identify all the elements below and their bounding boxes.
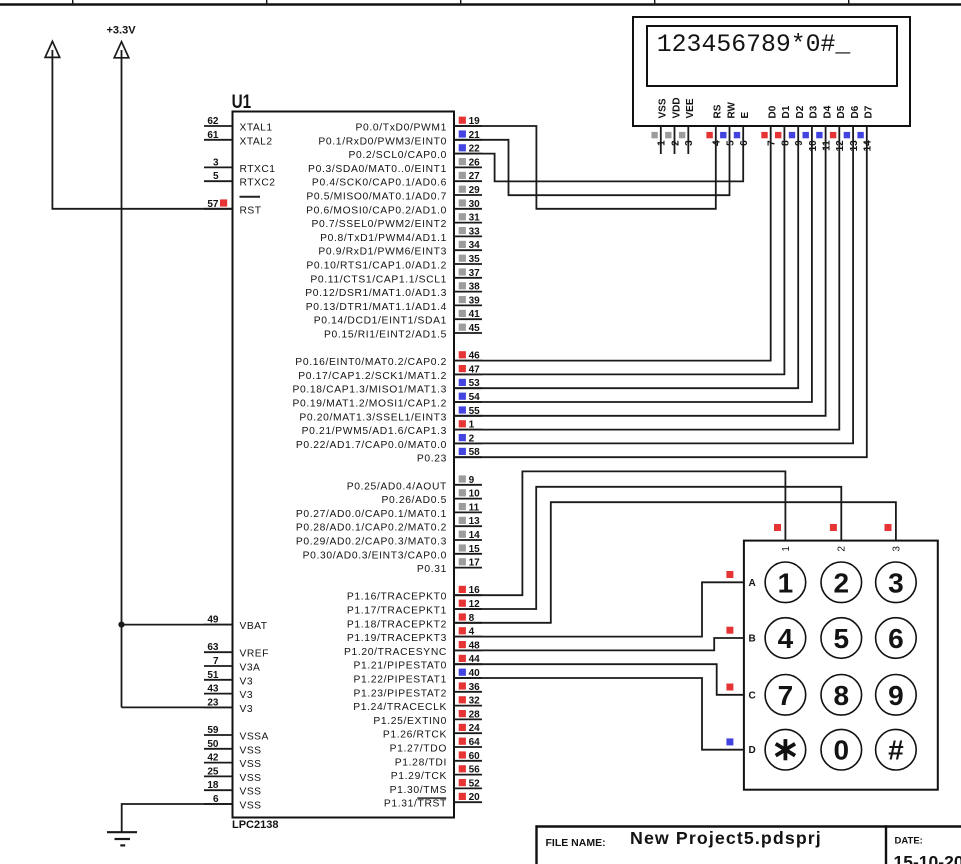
svg-text:P0.1/RxD0/PWM3/EINT0: P0.1/RxD0/PWM3/EINT0 <box>318 136 447 147</box>
svg-text:P1.29/TCK: P1.29/TCK <box>391 771 447 782</box>
wire U1 to LCD D0 <box>454 126 771 361</box>
U1 pin 50 (VSS) <box>204 739 262 757</box>
svg-text:2: 2 <box>837 546 848 552</box>
keypad row pin square at y=694.8 <box>726 684 733 691</box>
U1 pin 56 (P1.29/TCK) <box>391 765 482 783</box>
svg-text:V3A: V3A <box>240 663 261 674</box>
svg-text:P0.5/MISO0/MAT0.1/AD0.7: P0.5/MISO0/MAT0.1/AD0.7 <box>306 192 447 203</box>
svg-text:13: 13 <box>469 516 481 527</box>
svg-text:P0.12/DSR1/MAT1.0/AD1.3: P0.12/DSR1/MAT1.0/AD1.3 <box>305 288 447 299</box>
svg-text:P1.23/PIPESTAT2: P1.23/PIPESTAT2 <box>354 688 448 699</box>
LCD pin 9 (D2) <box>789 105 806 146</box>
svg-text:3: 3 <box>888 567 904 598</box>
svg-text:RTXC1: RTXC1 <box>240 164 276 175</box>
svg-text:P0.11/CTS1/CAP1.1/SCL1: P0.11/CTS1/CAP1.1/SCL1 <box>310 274 447 285</box>
svg-text:41: 41 <box>469 309 481 320</box>
svg-text:VSS: VSS <box>240 745 262 756</box>
svg-text:P1.27/TDO: P1.27/TDO <box>390 744 447 755</box>
svg-text:33: 33 <box>469 226 481 237</box>
U1 pin 15 (P0.30/AD0.3/EINT3/CAP0.0) <box>303 544 482 562</box>
wire P1.22 pin40 to keypad row D <box>454 678 744 750</box>
U1 pin 36 (P1.23/PIPESTAT2) <box>354 682 483 700</box>
U1 pin 19 (P0.0/TxD0/PWM1) <box>356 116 483 134</box>
svg-text:P1.31/TRST: P1.31/TRST <box>384 799 447 810</box>
svg-text:34: 34 <box>469 240 481 251</box>
svg-text:4: 4 <box>712 140 723 146</box>
svg-text:52: 52 <box>469 778 481 789</box>
LCD pin 14 (D7) <box>857 105 874 151</box>
svg-text:P0.17/CAP1.2/SCK1/MAT1.2: P0.17/CAP1.2/SCK1/MAT1.2 <box>298 371 447 382</box>
svg-text:P1.19/TRACEPKT3: P1.19/TRACEPKT3 <box>347 633 447 644</box>
svg-text:60: 60 <box>469 751 481 762</box>
svg-text:#: # <box>888 735 904 766</box>
U1 pin 39 (P0.13/DTR1/MAT1.1/AD1.4) <box>306 295 482 313</box>
svg-text:8: 8 <box>780 140 791 146</box>
U1 pin 34 (P0.9/RxD1/PWM6/EINT3) <box>318 240 482 258</box>
svg-text:57: 57 <box>207 199 219 210</box>
LCD pin 1 (VSS) <box>651 98 668 154</box>
LCD pin 2 (VDD) <box>665 97 682 154</box>
U1 pin 60 (P1.28/TDI) <box>395 751 482 769</box>
svg-text:25: 25 <box>207 766 219 777</box>
svg-text:VDD: VDD <box>671 97 682 118</box>
svg-text:4: 4 <box>778 623 794 654</box>
svg-text:P1.28/TDI: P1.28/TDI <box>395 757 447 768</box>
svg-text:P0.9/RxD1/PWM6/EINT3: P0.9/RxD1/PWM6/EINT3 <box>318 247 447 258</box>
wire U1 to LCD D7 <box>454 126 867 457</box>
keypad column pin square at x=841.3 <box>830 524 837 531</box>
svg-text:VSSA: VSSA <box>240 732 269 743</box>
wire P1.20 pin48 to keypad row B <box>454 638 744 650</box>
svg-text:6: 6 <box>888 623 904 654</box>
svg-text:RS: RS <box>713 104 724 118</box>
U1 pin 10 (P0.26/AD0.5) <box>381 489 482 507</box>
svg-text:P0.8/TxD1/PWM4/AD1.1: P0.8/TxD1/PWM4/AD1.1 <box>320 233 447 244</box>
svg-text:6: 6 <box>213 794 219 805</box>
svg-text:20: 20 <box>469 792 481 803</box>
svg-text:P0.29/AD0.2/CAP0.3/MAT0.3: P0.29/AD0.2/CAP0.3/MAT0.3 <box>296 537 447 548</box>
svg-text:VEE: VEE <box>685 98 696 118</box>
svg-text:51: 51 <box>207 670 219 681</box>
svg-text:P1.26/RTCK: P1.26/RTCK <box>383 730 447 741</box>
svg-text:P1.20/TRACESYNC: P1.20/TRACESYNC <box>344 647 447 658</box>
svg-text:63: 63 <box>207 642 219 653</box>
U1 pin 7 (V3A) <box>204 656 260 674</box>
keypad key 7 <box>765 675 806 716</box>
svg-text:P1.25/EXTIN0: P1.25/EXTIN0 <box>373 716 447 727</box>
svg-text:36: 36 <box>469 682 481 693</box>
U1 pin 29 (P0.5/MISO0/MAT0.1/AD0.7) <box>306 185 482 203</box>
svg-text:P0.30/AD0.3/EINT3/CAP0.0: P0.30/AD0.3/EINT3/CAP0.0 <box>303 550 447 561</box>
U1 pin 21 (P0.1/RxD0/PWM3/EINT0) <box>318 130 482 148</box>
svg-text:59: 59 <box>207 725 219 736</box>
svg-text:P0.2/SCL0/CAP0.0: P0.2/SCL0/CAP0.0 <box>348 150 447 161</box>
keypad row pin square at y=749.7 <box>726 738 733 745</box>
ground symbol <box>107 832 137 845</box>
LCD pin 8 (D1) <box>775 105 792 146</box>
U1 pin 57 (RST) <box>204 197 262 217</box>
keypad key 5 <box>821 618 862 659</box>
LCD module body <box>633 17 910 126</box>
svg-text:9: 9 <box>794 140 805 146</box>
keypad key 3 <box>876 562 917 603</box>
svg-text:3: 3 <box>213 157 219 168</box>
U1 pin 42 (VSS) <box>204 753 262 771</box>
svg-text:9: 9 <box>888 680 904 711</box>
U1 pin 38 (P0.12/DSR1/MAT1.0/AD1.3) <box>305 282 482 300</box>
svg-text:VSS: VSS <box>240 759 262 770</box>
svg-text:U1: U1 <box>232 92 252 113</box>
svg-text:3: 3 <box>684 140 695 146</box>
svg-text:11: 11 <box>469 502 480 513</box>
svg-text:V3: V3 <box>240 676 254 687</box>
U1 pin 27 (P0.4/SCK0/CAP0.1/AD0.6) <box>312 171 482 189</box>
svg-text:D4: D4 <box>822 105 833 118</box>
svg-text:D2: D2 <box>795 105 806 118</box>
svg-text:30: 30 <box>469 199 481 210</box>
U1 pin 9 (P0.25/AD0.4/AOUT) <box>347 475 482 493</box>
svg-text:8: 8 <box>834 680 850 711</box>
svg-text:32: 32 <box>469 696 481 707</box>
U1 pin 1 (P0.21/PWM5/AD1.6/CAP1.3) <box>302 420 482 438</box>
U1 pin 53 (P0.18/CAP1.3/MISO1/MAT1.3) <box>292 378 482 396</box>
svg-text:2: 2 <box>670 140 681 146</box>
svg-text:RST: RST <box>240 205 262 216</box>
svg-text:P0.22/AD1.7/CAP0.0/MAT0.0: P0.22/AD1.7/CAP0.0/MAT0.0 <box>296 440 447 451</box>
U1 pin 11 (P0.27/AD0.0/CAP0.1/MAT0.1) <box>296 502 482 520</box>
U1 pin 26 (P0.3/SDA0/MAT0..0/EINT1) <box>308 157 482 175</box>
wire +3.3V to VBAT pin 49 <box>122 624 233 626</box>
junction dot on +3.3V rail at VBAT <box>118 622 124 628</box>
wire P1.19 pin4 to keypad row A <box>454 582 744 636</box>
U1 pin 52 (P1.30/TMS) <box>390 778 482 796</box>
wire VSS pin 6 to ground <box>122 804 233 832</box>
keypad column pin square at x=785.4 <box>774 524 781 531</box>
sheet border tick marks <box>73 0 849 3</box>
keypad key 6 <box>876 618 917 659</box>
U1 pin 40 (P1.22/PIPESTAT1) <box>354 668 483 686</box>
svg-text:P0.18/CAP1.3/MISO1/MAT1.3: P0.18/CAP1.3/MISO1/MAT1.3 <box>292 385 447 396</box>
wire +3.3V to V3 pin 23 <box>122 706 233 708</box>
svg-text:VSS: VSS <box>240 801 262 812</box>
keypad body <box>744 541 938 790</box>
svg-text:6: 6 <box>739 140 750 146</box>
LCD pin 10 (D3) <box>803 105 820 151</box>
svg-text:3: 3 <box>891 546 902 552</box>
U1 pin 58 (P0.23) <box>417 447 482 465</box>
title block frame <box>536 825 961 864</box>
wire U1 to LCD D4 <box>454 126 826 416</box>
keypad key 9 <box>876 675 917 716</box>
svg-text:0: 0 <box>834 735 850 766</box>
keypad key 8 <box>821 675 862 716</box>
wire U1 to LCD D3 <box>454 126 812 402</box>
svg-text:39: 39 <box>469 295 481 306</box>
keypad key 1 <box>765 562 806 603</box>
U1 pin 17 (P0.31) <box>417 558 482 576</box>
svg-text:LPC2138: LPC2138 <box>232 819 278 831</box>
wire P1.21 pin44 to keypad row C <box>454 664 744 695</box>
svg-text:P0.4/SCK0/CAP0.1/AD0.6: P0.4/SCK0/CAP0.1/AD0.6 <box>312 178 447 189</box>
sheet border line <box>0 3 961 5</box>
wire U1 to LCD D5 <box>454 126 839 430</box>
svg-text:26: 26 <box>469 157 481 168</box>
svg-text:10: 10 <box>808 140 819 152</box>
svg-text:1: 1 <box>781 546 792 552</box>
svg-text:P0.25/AD0.4/AOUT: P0.25/AD0.4/AOUT <box>347 481 447 492</box>
svg-text:7: 7 <box>767 140 778 146</box>
U1 pin 55 (P0.20/MAT1.3/SSEL1/EINT3) <box>299 406 482 424</box>
U1 pin 22 (P0.2/SCL0/CAP0.0) <box>348 144 482 162</box>
svg-text:E: E <box>740 112 751 119</box>
svg-text:VSS: VSS <box>658 98 669 118</box>
U1 pin 14 (P0.29/AD0.2/CAP0.3/MAT0.3) <box>296 530 482 548</box>
svg-text:RW: RW <box>726 101 737 118</box>
wire P1.16 pin16 to keypad column 1 <box>454 471 785 595</box>
keypad key * <box>765 729 806 770</box>
wire U1 to LCD D2 <box>454 126 798 388</box>
U1 pin 44 (P1.21/PIPESTAT0) <box>354 654 483 672</box>
svg-text:35: 35 <box>469 254 481 265</box>
wire P1.17 pin12 to keypad column 2 <box>454 487 841 609</box>
wire RST rail (arrow to U1 RST pin 57) <box>52 50 232 209</box>
svg-text:D1: D1 <box>781 105 792 118</box>
svg-text:1: 1 <box>657 140 668 146</box>
U1 pin 32 (P1.24/TRACECLK) <box>353 696 482 714</box>
wire P0.0 pin19 to LCD RS <box>454 126 716 209</box>
svg-text:P0.31: P0.31 <box>417 564 447 575</box>
svg-text:P0.16/EINT0/MAT0.2/CAP0.2: P0.16/EINT0/MAT0.2/CAP0.2 <box>295 357 447 368</box>
svg-text:D6: D6 <box>850 105 861 118</box>
svg-text:5: 5 <box>725 140 736 146</box>
svg-text:VREF: VREF <box>240 649 269 660</box>
svg-text:RTXC2: RTXC2 <box>240 178 276 189</box>
wire +3.3V rail vertical <box>121 50 123 707</box>
U1 pin 30 (P0.6/MOSI0/CAP0.2/AD1.0) <box>306 199 482 217</box>
U1 pin 33 (P0.8/TxD1/PWM4/AD1.1) <box>320 226 482 244</box>
svg-text:D3: D3 <box>809 105 820 118</box>
svg-text:P0.20/MAT1.3/SSEL1/EINT3: P0.20/MAT1.3/SSEL1/EINT3 <box>299 412 447 423</box>
U1 pin 43 (V3) <box>204 684 253 702</box>
svg-text:11: 11 <box>822 140 833 151</box>
svg-text:P1.17/TRACEPKT1: P1.17/TRACEPKT1 <box>347 606 447 617</box>
wire U1 to LCD D6 <box>454 126 853 443</box>
svg-text:15: 15 <box>469 544 481 555</box>
svg-text:P0.19/MAT1.2/MOSI1/CAP1.2: P0.19/MAT1.2/MOSI1/CAP1.2 <box>292 399 447 410</box>
U1 pin 48 (P1.20/TRACESYNC) <box>344 640 482 658</box>
svg-text:New Project5.pdsprj: New Project5.pdsprj <box>630 828 822 848</box>
wire P0.2 pin22 to LCD E <box>454 126 743 181</box>
svg-text:45: 45 <box>469 323 481 334</box>
U1 pin 23 (V3) <box>204 697 253 715</box>
U1 pin 47 (P0.17/CAP1.2/SCK1/MAT1.2) <box>298 364 482 382</box>
svg-text:43: 43 <box>207 684 219 695</box>
svg-text:P0.14/DCD1/EINT1/SDA1: P0.14/DCD1/EINT1/SDA1 <box>314 316 447 327</box>
svg-text:5: 5 <box>834 623 850 654</box>
svg-text:15-10-20: 15-10-20 <box>894 852 961 864</box>
svg-text:64: 64 <box>469 737 481 748</box>
svg-text:7: 7 <box>778 680 794 711</box>
U1 pin 8 (P1.18/TRACEPKT2) <box>347 613 482 631</box>
svg-text:VSS: VSS <box>240 773 262 784</box>
svg-text:D: D <box>749 745 756 756</box>
svg-text:B: B <box>749 634 756 645</box>
svg-text:VSS: VSS <box>240 787 262 798</box>
U1 pin 6 (VSS) <box>204 794 262 812</box>
svg-text:VBAT: VBAT <box>240 621 268 632</box>
svg-text:14: 14 <box>863 140 874 152</box>
U1 pin 5 (RTXC2) <box>204 171 275 189</box>
U1 pin 24 (P1.26/RTCK) <box>383 723 482 741</box>
svg-text:P0.23: P0.23 <box>417 454 447 465</box>
LCD pin 6 (E) <box>734 112 751 146</box>
keypad column pin square at x=895.9 <box>885 524 892 531</box>
LCD pin 4 (RS) <box>706 104 723 146</box>
svg-text:P0.26/AD0.5: P0.26/AD0.5 <box>381 495 447 506</box>
svg-text:P0.13/DTR1/MAT1.1/AD1.4: P0.13/DTR1/MAT1.1/AD1.4 <box>306 302 447 313</box>
U1 pin 54 (P0.19/MAT1.2/MOSI1/CAP1.2) <box>292 392 482 410</box>
U1 pin 59 (VSSA) <box>204 725 269 743</box>
svg-text:2: 2 <box>834 567 850 598</box>
svg-text:V3: V3 <box>240 704 254 715</box>
svg-text:P1.16/TRACEPKT0: P1.16/TRACEPKT0 <box>347 592 447 603</box>
U1 pin 64 (P1.27/TDO) <box>390 737 482 755</box>
svg-text:24: 24 <box>469 723 481 734</box>
svg-text:P0.7/SSEL0/PWM2/EINT2: P0.7/SSEL0/PWM2/EINT2 <box>311 219 447 230</box>
U1 pin 63 (VREF) <box>204 642 269 660</box>
svg-text:28: 28 <box>469 709 481 720</box>
keypad row pin square at y=638.0 <box>726 627 733 634</box>
svg-text:17: 17 <box>469 558 481 569</box>
U1 pin 41 (P0.14/DCD1/EINT1/SDA1) <box>314 309 482 327</box>
svg-text:P0.28/AD0.1/CAP0.2/MAT0.2: P0.28/AD0.1/CAP0.2/MAT0.2 <box>296 523 447 534</box>
U1 pin 51 (V3) <box>204 670 253 688</box>
svg-text:C: C <box>749 690 756 701</box>
svg-text:18: 18 <box>207 780 219 791</box>
power symbol +3.3V arrow <box>114 42 129 58</box>
svg-text:38: 38 <box>469 282 481 293</box>
U1 pin 2 (P0.22/AD1.7/CAP0.0/MAT0.0) <box>296 433 482 451</box>
IC U1 LPC2138 body <box>233 112 455 818</box>
svg-text:12: 12 <box>835 140 846 152</box>
keypad key 2 <box>821 562 862 603</box>
LCD pin 5 (RW) <box>720 101 737 145</box>
svg-text:P1.18/TRACEPKT2: P1.18/TRACEPKT2 <box>347 619 447 630</box>
keypad row pin square at y=582.3 <box>726 571 733 578</box>
U1 pin 25 (VSS) <box>204 766 262 784</box>
svg-text:P0.0/TxD0/PWM1: P0.0/TxD0/PWM1 <box>356 123 448 134</box>
U1 pin 12 (P1.17/TRACEPKT1) <box>347 599 482 617</box>
svg-text:D7: D7 <box>864 105 875 118</box>
svg-text:37: 37 <box>469 268 481 279</box>
svg-text:62: 62 <box>207 116 219 127</box>
U1 pin 28 (P1.25/EXTIN0) <box>373 709 482 727</box>
svg-text:29: 29 <box>469 185 481 196</box>
svg-text:56: 56 <box>469 765 481 776</box>
U1 pin 46 (P0.16/EINT0/MAT0.2/CAP0.2) <box>295 351 482 369</box>
LCD pin 13 (D6) <box>844 105 861 151</box>
U1 pin 61 (XTAL2) <box>204 130 273 148</box>
svg-text:9: 9 <box>469 475 475 486</box>
svg-text:+3.3V: +3.3V <box>107 25 137 37</box>
svg-text:XTAL2: XTAL2 <box>240 136 273 147</box>
svg-text:D5: D5 <box>836 105 847 118</box>
keypad key # <box>876 729 917 770</box>
svg-text:7: 7 <box>213 656 219 667</box>
LCD pin 11 (D4) <box>816 105 833 151</box>
svg-text:FILE NAME:: FILE NAME: <box>546 837 606 849</box>
svg-text:61: 61 <box>207 130 219 141</box>
svg-text:P1.30/TMS: P1.30/TMS <box>390 785 447 796</box>
U1 pin 16 (P1.16/TRACEPKT0) <box>347 585 482 603</box>
U1 pin 49 (VBAT) <box>204 615 268 633</box>
svg-text:P1.22/PIPESTAT1: P1.22/PIPESTAT1 <box>354 675 448 686</box>
svg-text:5: 5 <box>213 171 219 182</box>
LCD screen area <box>647 26 897 86</box>
LCD pin 3 (VEE) <box>679 98 696 154</box>
power arrow (RST rail) <box>45 41 60 57</box>
svg-text:P0.21/PWM5/AD1.6/CAP1.3: P0.21/PWM5/AD1.6/CAP1.3 <box>302 426 447 437</box>
U1 pin 31 (P0.7/SSEL0/PWM2/EINT2) <box>311 213 482 231</box>
wire P0.1 pin21 to LCD RW <box>454 126 730 195</box>
svg-text:P0.6/MOSI0/CAP0.2/AD1.0: P0.6/MOSI0/CAP0.2/AD1.0 <box>306 205 447 216</box>
svg-text:23: 23 <box>207 697 219 708</box>
keypad key 0 <box>821 729 862 770</box>
svg-text:42: 42 <box>207 753 219 764</box>
svg-text:P0.27/AD0.0/CAP0.1/MAT0.1: P0.27/AD0.0/CAP0.1/MAT0.1 <box>296 509 447 520</box>
U1 pin 62 (XTAL1) <box>204 116 273 134</box>
U1 pin 37 (P0.11/CTS1/CAP1.1/SCL1) <box>310 268 482 286</box>
svg-text:50: 50 <box>207 739 219 750</box>
svg-text:V3: V3 <box>240 690 254 701</box>
keypad key 4 <box>765 618 806 659</box>
svg-text:13: 13 <box>849 140 860 152</box>
svg-text:31: 31 <box>469 213 481 224</box>
U1 pin 18 (VSS) <box>204 780 262 798</box>
wire P1.18 pin8 to keypad column 3 <box>454 502 896 623</box>
svg-text:49: 49 <box>207 615 219 626</box>
LCD pin 12 (D5) <box>830 105 847 151</box>
wire U1 to LCD D1 <box>454 126 784 374</box>
svg-text:1: 1 <box>778 567 794 598</box>
U1 pin 20 (P1.31/TRST) <box>384 792 482 810</box>
U1 pin 3 (RTXC1) <box>204 157 275 175</box>
svg-text:D0: D0 <box>768 105 779 118</box>
svg-text:P1.24/TRACECLK: P1.24/TRACECLK <box>353 702 447 713</box>
svg-text:P1.21/PIPESTAT0: P1.21/PIPESTAT0 <box>354 661 448 672</box>
svg-text:123456789*0#_: 123456789*0#_ <box>657 31 851 59</box>
LCD pin 7 (D0) <box>761 105 778 146</box>
svg-text:P0.15/RI1/EINT2/AD1.5: P0.15/RI1/EINT2/AD1.5 <box>324 330 447 341</box>
U1 pin 4 (P1.19/TRACEPKT3) <box>347 627 482 645</box>
U1 pin 13 (P0.28/AD0.1/CAP0.2/MAT0.2) <box>296 516 482 534</box>
U1 pin 35 (P0.10/RTS1/CAP1.0/AD1.2) <box>306 254 482 272</box>
svg-text:27: 27 <box>469 171 481 182</box>
svg-text:P0.3/SDA0/MAT0..0/EINT1: P0.3/SDA0/MAT0..0/EINT1 <box>308 164 447 175</box>
svg-text:10: 10 <box>469 489 481 500</box>
U1 pin 45 (P0.15/RI1/EINT2/AD1.5) <box>324 323 482 341</box>
svg-text:DATE:: DATE: <box>895 836 923 847</box>
svg-text:XTAL1: XTAL1 <box>240 123 273 134</box>
svg-text:A: A <box>749 578 756 589</box>
svg-text:P0.10/RTS1/CAP1.0/AD1.2: P0.10/RTS1/CAP1.0/AD1.2 <box>306 261 447 272</box>
svg-text:14: 14 <box>469 530 481 541</box>
